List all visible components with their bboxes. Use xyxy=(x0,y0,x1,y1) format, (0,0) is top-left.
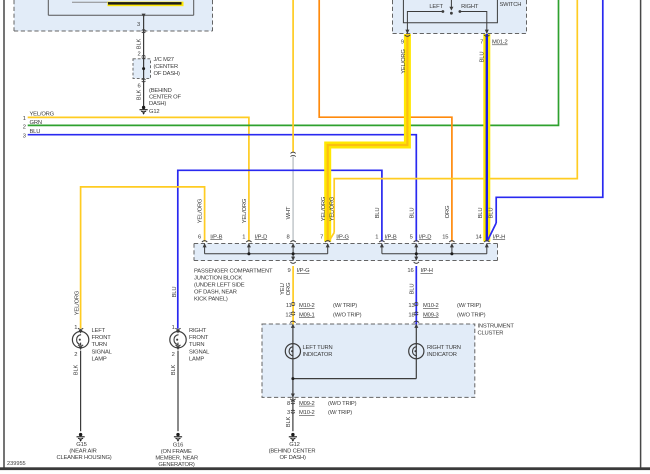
svg-text:13: 13 xyxy=(408,303,414,309)
junction dot inside J/C M27 xyxy=(142,67,145,70)
svg-text:SIGNAL: SIGNAL xyxy=(92,349,113,355)
svg-text:1: 1 xyxy=(74,325,77,331)
svg-text:LEFT: LEFT xyxy=(429,4,443,10)
svg-text:YEL/ORG: YEL/ORG xyxy=(242,198,248,223)
ground G16 xyxy=(174,433,182,442)
svg-text:I/P-G: I/P-G xyxy=(336,234,349,240)
page frame left xyxy=(3,0,5,469)
svg-text:I/P-B: I/P-B xyxy=(385,234,397,240)
svg-text:YEL/ORG: YEL/ORG xyxy=(198,198,204,223)
svg-text:3: 3 xyxy=(23,133,26,139)
svg-text:GENERATOR): GENERATOR) xyxy=(158,462,195,468)
svg-text:BLK: BLK xyxy=(137,89,143,100)
svg-text:ORG: ORG xyxy=(445,205,451,218)
svg-text:BLU: BLU xyxy=(409,284,415,295)
svg-text:BLK: BLK xyxy=(74,364,80,375)
connector M10-2 / M09-1 on left wire xyxy=(291,302,295,305)
svg-text:239955: 239955 xyxy=(7,461,26,467)
left front lamp connector pin 2 xyxy=(78,345,83,350)
wire YEL upper half of pin 8 drop xyxy=(292,0,294,152)
junction block left internal bus xyxy=(205,244,328,261)
wire BLU line 3 (left edge to junction pin 5 I/P-D) xyxy=(28,135,417,242)
svg-text:BLK: BLK xyxy=(137,38,143,49)
connector at flasher dashed edge xyxy=(142,30,146,33)
cluster exit xyxy=(290,394,295,401)
break marker on WHT wire xyxy=(291,152,296,157)
svg-text:9: 9 xyxy=(401,40,404,46)
wire BLU thin companion from top right to junction pin 14 xyxy=(496,0,603,223)
junction block box xyxy=(194,244,498,261)
svg-text:YEL/ORG: YEL/ORG xyxy=(74,290,80,315)
svg-text:7: 7 xyxy=(320,234,323,240)
svg-text:6: 6 xyxy=(198,234,201,240)
connector switch exit pin 9 xyxy=(405,30,410,37)
svg-text:(CENTER: (CENTER xyxy=(154,64,179,70)
svg-text:M09-2: M09-2 xyxy=(299,401,315,407)
svg-text:(BEHIND CENTER: (BEHIND CENTER xyxy=(269,449,316,455)
lamp left front turn signal xyxy=(72,332,88,348)
junction block entry pin 5 xyxy=(414,241,419,248)
highlighted BLK wire stub inside flasher box xyxy=(108,2,184,7)
wire ORG (top to junction pin 15) xyxy=(319,0,452,242)
wire stub top of flasher box xyxy=(72,1,108,3)
svg-text:JUNCTION BLOCK: JUNCTION BLOCK xyxy=(194,276,242,282)
svg-text:(W/O TRIP): (W/O TRIP) xyxy=(328,401,357,407)
lamp right turn indicator xyxy=(409,344,424,359)
cluster internal wiring xyxy=(293,328,416,398)
svg-text:YEL/ORG: YEL/ORG xyxy=(30,112,55,118)
junction block entry pin 8 xyxy=(290,241,295,248)
svg-text:5: 5 xyxy=(410,234,413,240)
ground G12 lower xyxy=(289,433,297,442)
right front lamp connector pin 2 xyxy=(175,345,180,350)
J/C M27 connector box xyxy=(133,59,151,79)
wire YEL/ORG junction pin 9 to cluster xyxy=(292,266,294,325)
svg-text:BLK: BLK xyxy=(171,364,177,375)
svg-text:I/P-H: I/P-H xyxy=(421,268,433,274)
svg-text:7: 7 xyxy=(480,40,483,46)
svg-text:11: 11 xyxy=(286,303,292,309)
junction dot cluster xyxy=(291,377,294,380)
wire YEL/ORG thin companion from top right to junction pin 7 xyxy=(334,0,577,233)
wire BLU companion diagonal into pin 14 xyxy=(488,223,497,241)
svg-text:I/P-G: I/P-G xyxy=(297,268,310,274)
svg-text:RIGHT: RIGHT xyxy=(189,328,207,334)
svg-text:BLU: BLU xyxy=(375,208,381,219)
svg-text:I/P-B: I/P-B xyxy=(210,234,222,240)
svg-text:TURN: TURN xyxy=(92,342,107,348)
wire BLK right front lamp to G16 xyxy=(177,351,179,432)
svg-text:LEFT TURN: LEFT TURN xyxy=(303,345,333,351)
svg-text:9: 9 xyxy=(287,268,290,274)
svg-text:ORG: ORG xyxy=(286,282,292,295)
svg-text:1: 1 xyxy=(242,234,245,240)
svg-text:2: 2 xyxy=(172,352,175,358)
svg-text:(NEAR AIR: (NEAR AIR xyxy=(69,449,96,455)
svg-text:1: 1 xyxy=(172,325,175,331)
svg-text:FRONT: FRONT xyxy=(189,335,209,341)
left front lamp connector pin 1 xyxy=(78,328,83,333)
svg-text:MEMBER, NEAR: MEMBER, NEAR xyxy=(155,456,198,462)
svg-text:BLU: BLU xyxy=(172,287,178,298)
wire WHT lower half to junction pin 8 xyxy=(292,156,294,241)
svg-text:RIGHT: RIGHT xyxy=(461,4,479,10)
connector out of J/C M27 pin 6 xyxy=(142,79,146,82)
connector into J/C M27 top pin 2 xyxy=(142,55,146,58)
turn signal switch box (dashed, top right) xyxy=(393,0,527,34)
svg-text:BLU: BLU xyxy=(478,208,484,219)
svg-text:SIGNAL: SIGNAL xyxy=(189,349,210,355)
junction block right internal bus xyxy=(382,244,487,261)
svg-text:BLU: BLU xyxy=(489,208,495,219)
svg-text:YEL/ORG: YEL/ORG xyxy=(401,49,407,74)
svg-text:G16: G16 xyxy=(173,443,183,449)
svg-text:CLUSTER: CLUSTER xyxy=(478,330,504,336)
svg-text:I/P-H: I/P-H xyxy=(493,234,505,240)
svg-text:18: 18 xyxy=(408,312,414,318)
svg-text:G12: G12 xyxy=(149,109,159,115)
svg-text:YEL/ORG: YEL/ORG xyxy=(329,196,335,221)
svg-text:G12: G12 xyxy=(289,442,299,448)
svg-text:LAMP: LAMP xyxy=(92,357,107,363)
svg-text:M09-3: M09-3 xyxy=(423,312,439,318)
highlighted YEL/ORG wire core xyxy=(328,34,408,242)
page frame bottom bar xyxy=(0,467,650,470)
junction block entry pin 6 xyxy=(202,241,207,248)
svg-text:(UNDER LEFT SIDE: (UNDER LEFT SIDE xyxy=(194,283,245,289)
svg-text:TURN: TURN xyxy=(189,342,204,348)
wire YEL/ORG companion diagonal into pin 7 xyxy=(329,233,334,241)
svg-text:2: 2 xyxy=(23,125,26,131)
svg-text:M09-1: M09-1 xyxy=(299,312,315,318)
svg-text:INDICATOR: INDICATOR xyxy=(427,352,457,358)
connector M09-2 / M10-2 below cluster xyxy=(291,401,295,404)
svg-text:SWITCH: SWITCH xyxy=(500,2,522,8)
svg-text:LEFT: LEFT xyxy=(92,328,106,334)
switch internal contacts xyxy=(403,0,497,34)
svg-text:(BEHIND: (BEHIND xyxy=(149,88,172,94)
ground G12 (behind center of dash, upper) xyxy=(140,106,148,115)
wire BLU right front lamp feed (junction pin 1 I/P-B to lamp) xyxy=(178,170,382,328)
svg-text:(W/ TRIP): (W/ TRIP) xyxy=(328,410,352,416)
svg-text:3: 3 xyxy=(287,410,290,416)
wire BLK left front lamp to G15 xyxy=(80,351,82,432)
svg-text:15: 15 xyxy=(442,234,448,240)
svg-text:1: 1 xyxy=(23,116,26,122)
connector switch exit pin 7 xyxy=(484,30,489,37)
svg-text:J/C M27: J/C M27 xyxy=(154,57,174,63)
svg-text:DASH): DASH) xyxy=(149,101,166,107)
arrow out of flasher inner box xyxy=(142,14,146,18)
lamp right front turn signal xyxy=(170,332,186,348)
svg-text:BLU: BLU xyxy=(479,52,485,63)
svg-text:M10-2: M10-2 xyxy=(299,410,315,416)
svg-text:(W/ TRIP): (W/ TRIP) xyxy=(333,303,357,309)
svg-text:INDICATOR: INDICATOR xyxy=(303,352,333,358)
ground G15 xyxy=(77,433,85,442)
page frame right xyxy=(640,0,642,469)
svg-text:12: 12 xyxy=(285,312,291,318)
junction block entry pin 7 xyxy=(325,241,330,248)
right front lamp connector pin 1 xyxy=(175,328,180,333)
svg-text:BLU: BLU xyxy=(30,129,41,135)
svg-text:OF DASH): OF DASH) xyxy=(279,455,306,461)
svg-text:FRONT: FRONT xyxy=(92,335,112,341)
svg-text:6: 6 xyxy=(137,84,140,90)
svg-text:8: 8 xyxy=(287,401,290,407)
junction block entry pin 14 xyxy=(484,241,489,248)
svg-text:(W/ TRIP): (W/ TRIP) xyxy=(457,303,481,309)
lamp left turn indicator xyxy=(285,344,300,359)
svg-text:OF DASH, NEAR: OF DASH, NEAR xyxy=(194,290,237,296)
svg-text:16: 16 xyxy=(407,268,413,274)
bus junction dots xyxy=(247,252,250,255)
svg-text:YEL/ORG: YEL/ORG xyxy=(321,196,327,221)
svg-text:GRN: GRN xyxy=(30,120,42,126)
junction block exit pin 16 xyxy=(414,257,419,264)
svg-text:M10-2: M10-2 xyxy=(299,303,315,309)
highlight band BLU from switch pin 7 to junction pin 14 xyxy=(483,34,490,242)
wire GRN line 2 (left edge to top right) xyxy=(28,0,559,125)
junction block entry pin 1 I/P-B xyxy=(379,241,384,248)
cluster entry right xyxy=(414,321,419,328)
svg-text:(ON FRAME: (ON FRAME xyxy=(161,449,192,455)
svg-text:PASSENGER COMPARTMENT: PASSENGER COMPARTMENT xyxy=(194,269,273,275)
svg-text:CLEANER HOUSING): CLEANER HOUSING) xyxy=(56,455,111,461)
wire BLK cluster to G12 xyxy=(292,397,294,431)
junction block entry pin 1 I/P-D xyxy=(246,241,251,248)
svg-text:14: 14 xyxy=(476,234,483,240)
svg-text:CENTER OF: CENTER OF xyxy=(149,95,182,101)
svg-text:2: 2 xyxy=(137,52,140,58)
junction block entry pin 15 xyxy=(449,241,454,248)
svg-text:1: 1 xyxy=(375,234,378,240)
svg-text:(W/O TRIP): (W/O TRIP) xyxy=(457,312,486,318)
wire YEL/ORG left front lamp feed (junction pin 6 I/P-B to lamp) xyxy=(81,187,205,329)
connector M10-2 / M09-3 on right wire xyxy=(414,302,418,305)
svg-text:YEL/: YEL/ xyxy=(280,283,286,295)
highlighted BLU wire core xyxy=(486,34,488,242)
svg-text:KICK PANEL): KICK PANEL) xyxy=(194,297,228,303)
svg-text:M10-2: M10-2 xyxy=(423,303,439,309)
cluster entry left xyxy=(290,321,295,328)
svg-text:I/P-D: I/P-D xyxy=(255,234,267,240)
svg-text:2: 2 xyxy=(74,352,77,358)
junction block exit pin 9 xyxy=(290,257,295,264)
svg-text:INSTRUMENT: INSTRUMENT xyxy=(478,324,515,330)
svg-text:BLK: BLK xyxy=(286,416,292,427)
wire BLU junction pin 16 to cluster xyxy=(415,266,417,325)
svg-text:WHT: WHT xyxy=(286,206,292,219)
wire YEL/ORG line 1 (left edge to junction pin 1 I/P-D) xyxy=(28,117,249,241)
svg-text:I/P-D: I/P-D xyxy=(419,234,431,240)
svg-text:OF DASH): OF DASH) xyxy=(154,71,181,77)
svg-text:G15: G15 xyxy=(76,442,86,448)
svg-text:LAMP: LAMP xyxy=(189,357,204,363)
highlight band YEL/ORG from switch pin 9 to junction pin 7 xyxy=(328,34,408,242)
flasher box top-left (dashed component box) xyxy=(14,0,213,31)
svg-text:3: 3 xyxy=(137,22,140,28)
svg-text:(W/O TRIP): (W/O TRIP) xyxy=(333,312,362,318)
svg-text:8: 8 xyxy=(286,234,289,240)
svg-text:M01-2: M01-2 xyxy=(492,40,508,46)
svg-text:BLU: BLU xyxy=(409,208,415,219)
instrument cluster box xyxy=(262,324,475,397)
svg-text:RIGHT TURN: RIGHT TURN xyxy=(427,345,461,351)
wire BLK flasher to J/C M27 to G12 xyxy=(143,15,145,106)
